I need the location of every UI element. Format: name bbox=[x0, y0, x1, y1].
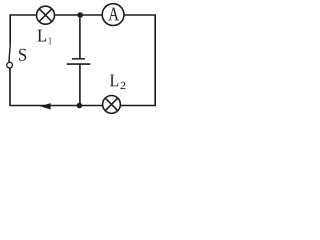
switch S contact circle bbox=[7, 62, 13, 68]
lamp L1 bbox=[37, 6, 55, 24]
current direction arrow on bottom wire bbox=[40, 103, 51, 109]
wire battery bottom lead: long plate down to bottom junction bbox=[79, 64, 81, 105]
wire top-middle segment: lamp L1 to ammeter through top junction bbox=[55, 14, 103, 16]
label L1: subscript 1 bbox=[49, 37, 52, 44]
wire bottom and lower-left: lamp L2 to bottom-left corner up to switch contact bbox=[10, 68, 103, 106]
label L2: letter L bbox=[110, 75, 118, 87]
label S (switch) bbox=[19, 49, 26, 61]
battery cell short plate (top, negative) bbox=[72, 58, 85, 60]
label L2: subscript 2 bbox=[121, 82, 126, 89]
ammeter A bbox=[102, 4, 124, 26]
wire battery top lead: top junction down to short plate bbox=[79, 15, 81, 58]
node: bottom junction dot bbox=[77, 103, 83, 109]
lamp L2 bbox=[103, 96, 121, 114]
switch S blade bbox=[9, 45, 10, 63]
node: top junction dot bbox=[77, 12, 83, 18]
label A (ammeter letter) bbox=[108, 8, 118, 21]
wire top-left segment: from switch top up left side and across to lamp L1 bbox=[10, 15, 36, 45]
battery cell long plate (bottom, positive) bbox=[67, 63, 91, 65]
wire top-right and right side: ammeter to top-right corner down to lamp L2 bbox=[120, 15, 155, 106]
label L1: letter L bbox=[38, 30, 47, 42]
